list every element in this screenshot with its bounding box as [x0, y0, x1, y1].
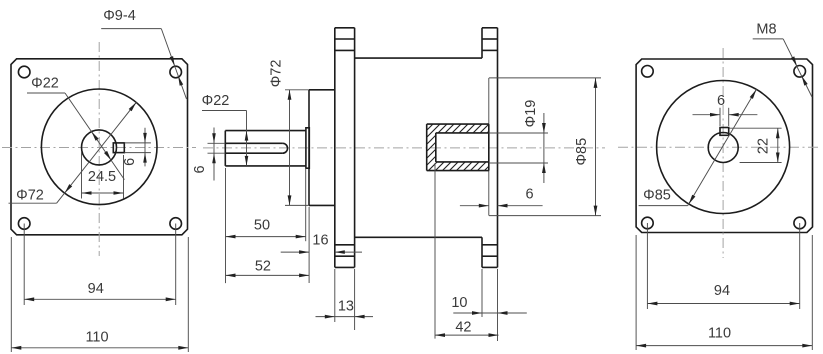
- svg-text:Φ72: Φ72: [16, 187, 44, 203]
- middle view: dimension dia19: [489, 100, 548, 183]
- right view: dimension 22: [729, 128, 781, 162]
- right view: corner hole bottom-right: [794, 217, 806, 229]
- right view: input bore circle dia19: [708, 133, 738, 163]
- left view: dimension 24.5: [82, 152, 124, 199]
- left view: corner hole bottom-right: [170, 218, 182, 230]
- svg-text:50: 50: [254, 218, 270, 234]
- middle view: dimension 16: [281, 233, 362, 254]
- left view: horizontal centerline: [2, 147, 196, 149]
- left view: square flange plate outline: [11, 59, 188, 235]
- svg-text:110: 110: [85, 330, 108, 346]
- left view: vertical centerline: [98, 42, 100, 256]
- left view: shaft bore circle dia 22: [82, 130, 117, 165]
- middle view: keyway slot: [225, 143, 287, 153]
- middle view: input bore recess hatching: [375, 119, 550, 175]
- left view: dimension 110: [11, 237, 188, 352]
- middle view: input bore dia19 outline: [436, 133, 489, 162]
- right view: vertical centerline: [722, 48, 724, 258]
- svg-text:Φ85: Φ85: [574, 138, 590, 166]
- middle view: label dia22 shaft: [202, 93, 249, 166]
- right view: corner hole bottom-left: [642, 217, 654, 229]
- svg-text:6: 6: [525, 187, 533, 203]
- middle view: dimension dia85: [489, 78, 601, 216]
- middle view: dimension 6 keyway: [192, 128, 225, 181]
- svg-text:22: 22: [755, 138, 771, 154]
- right view: corner hole top-left: [642, 66, 654, 78]
- middle view: dimension 42: [435, 163, 499, 341]
- middle view: rear flange plate: [482, 28, 498, 268]
- left view: label dia22 leader: [27, 76, 124, 180]
- right view: dimension 110: [636, 235, 812, 350]
- right view: square flange plate outline: [636, 59, 812, 233]
- svg-text:Φ22: Φ22: [31, 76, 59, 92]
- left view: boss circle dia 72: [41, 89, 157, 205]
- right view: horizontal centerline: [618, 146, 820, 148]
- right view: corner hole top-right: [794, 66, 806, 78]
- middle view: pilot circle dia85 edge line: [488, 78, 490, 216]
- middle view: dimension 50: [226, 168, 306, 283]
- middle view: output shaft outline: [225, 131, 306, 166]
- right view: label M8 leader: [753, 22, 812, 98]
- right view: keyway slot: [720, 128, 729, 136]
- svg-text:110: 110: [708, 326, 731, 342]
- right view: dimension 6 keyway: [693, 93, 758, 126]
- middle view: dimension 10: [451, 269, 526, 317]
- middle view: input bore recess outline: [427, 124, 489, 171]
- left view: corner hole top-left: [18, 66, 30, 78]
- svg-text:6: 6: [122, 158, 138, 166]
- svg-text:Φ9-4: Φ9-4: [103, 8, 136, 24]
- right view: dimension 94: [647, 223, 799, 309]
- svg-text:94: 94: [714, 283, 730, 299]
- left view: corner hole bottom-left: [18, 218, 30, 230]
- middle view: dimension dia72: [269, 60, 309, 206]
- middle view: boss dia72 outline: [309, 90, 335, 206]
- middle view: dimension 13: [316, 269, 374, 330]
- middle view: shaft shoulder step: [306, 128, 309, 168]
- svg-text:24.5: 24.5: [88, 169, 116, 185]
- svg-text:Φ22: Φ22: [202, 93, 230, 109]
- left view: key cross-section: [113, 143, 124, 153]
- right view: label dia85 leader: [639, 89, 757, 205]
- left view: corner hole top-right: [170, 66, 182, 78]
- left view: label dia72 leader: [9, 102, 137, 203]
- svg-text:M8: M8: [756, 22, 776, 38]
- svg-text:6: 6: [717, 93, 725, 109]
- svg-text:10: 10: [451, 295, 467, 311]
- svg-text:42: 42: [455, 320, 471, 336]
- middle view: dimension 52: [226, 207, 310, 283]
- middle view: front flange plate: [335, 28, 355, 268]
- middle view: dimension 6 pilot depth: [460, 187, 543, 208]
- svg-text:Φ19: Φ19: [523, 100, 539, 128]
- left view: dimension 6 key: [122, 128, 151, 167]
- svg-text:Φ85: Φ85: [643, 188, 671, 204]
- svg-text:94: 94: [88, 281, 104, 297]
- middle view: gearbox body: [355, 58, 482, 237]
- svg-text:13: 13: [338, 299, 354, 315]
- svg-text:6: 6: [192, 165, 208, 173]
- left view: dimension 94: [24, 224, 176, 306]
- left view: label dia9-4 leader: [101, 8, 186, 99]
- svg-text:52: 52: [255, 259, 271, 275]
- svg-text:Φ72: Φ72: [269, 60, 285, 88]
- svg-text:16: 16: [312, 233, 328, 249]
- right view: pilot circle dia85: [657, 81, 790, 214]
- middle view: horizontal centerline: [203, 147, 605, 149]
